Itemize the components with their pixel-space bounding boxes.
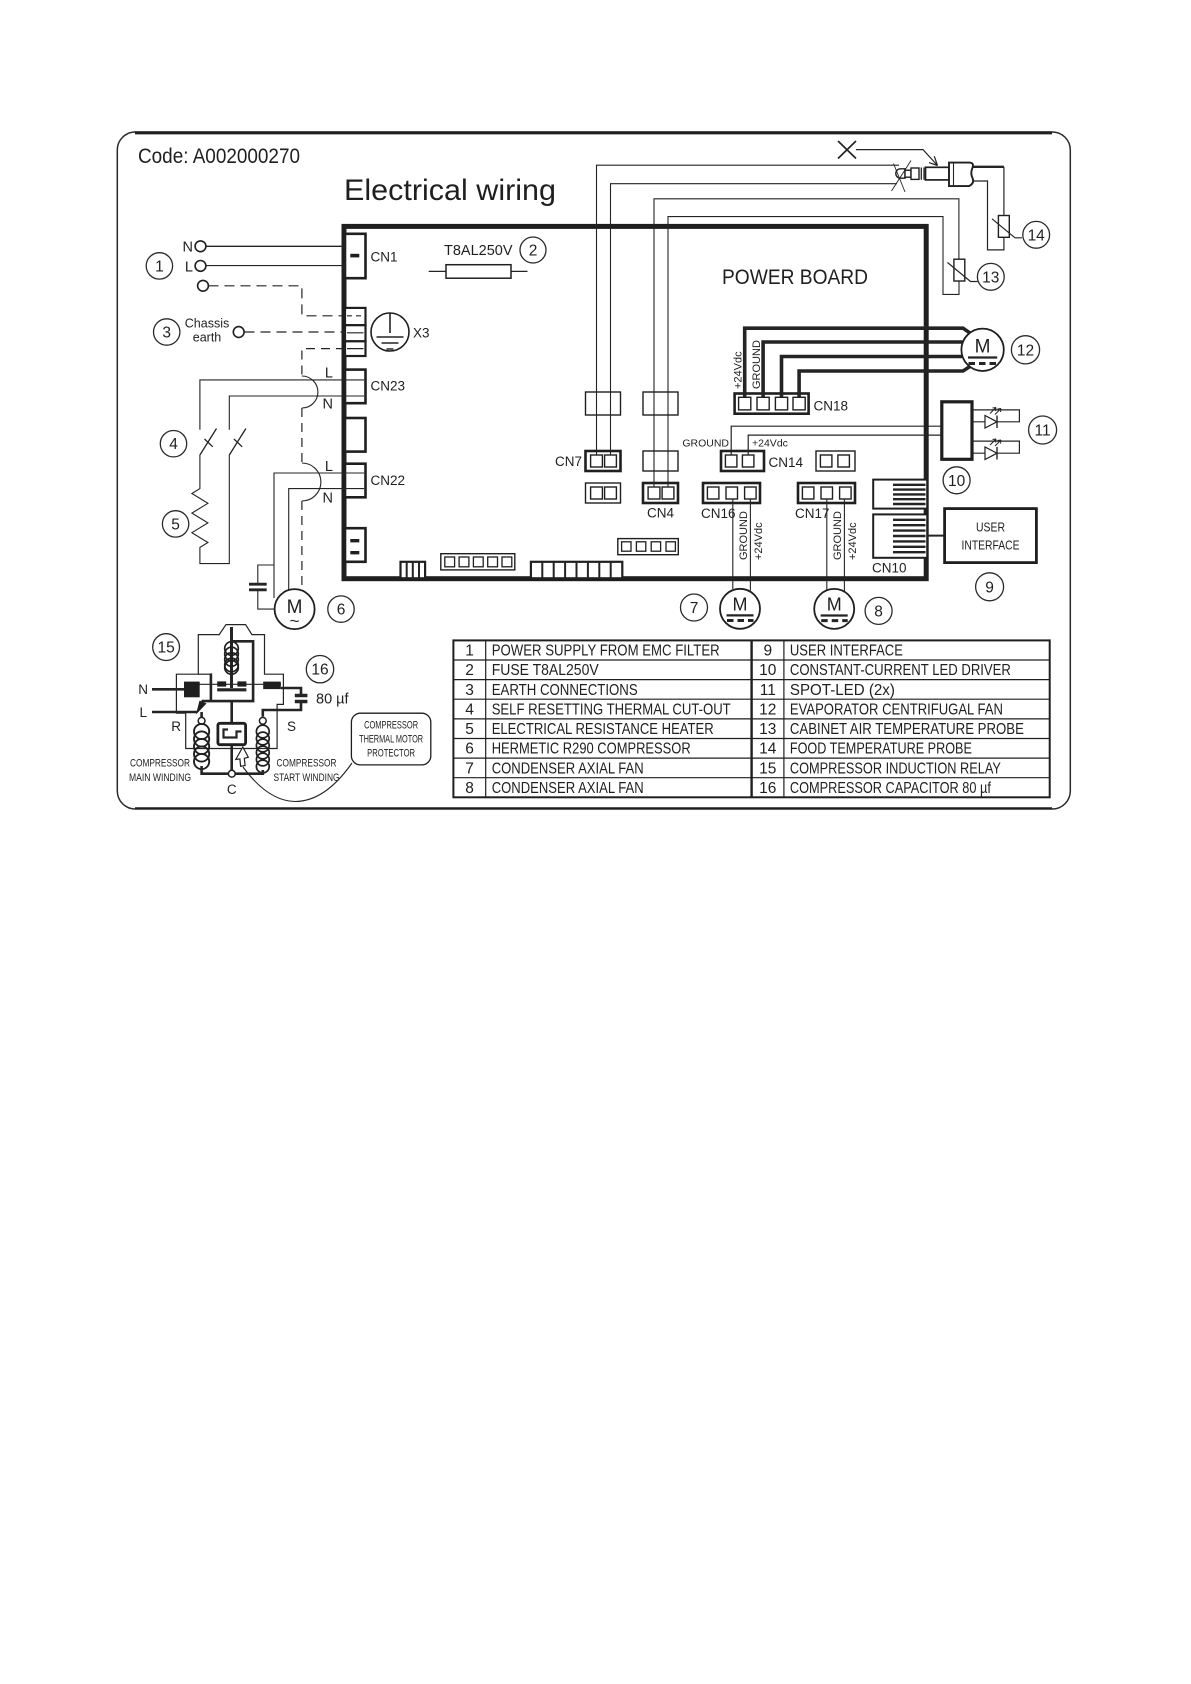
connector rect above CN4 upper: [643, 392, 678, 415]
svg-text:GROUND: GROUND: [832, 511, 844, 560]
svg-text:CN14: CN14: [769, 455, 804, 470]
svg-text:15: 15: [157, 640, 174, 657]
legend row 2: [465, 662, 599, 679]
diode spot-led 1: [985, 408, 1001, 429]
svg-text:X3: X3: [413, 326, 430, 341]
svg-text:1: 1: [465, 643, 474, 660]
svg-text:FUSE T8AL250V: FUSE T8AL250V: [492, 662, 600, 679]
legend row 13: [759, 721, 1024, 738]
node R terminal: [171, 712, 205, 734]
svg-text:POWER BOARD: POWER BOARD: [722, 265, 868, 289]
svg-text:EARTH CONNECTIONS: EARTH CONNECTIONS: [492, 682, 638, 699]
svg-text:+24Vdc: +24Vdc: [752, 438, 788, 450]
wire plug tip to food probe: [973, 167, 1004, 216]
svg-text:COMPRESSOR: COMPRESSOR: [277, 758, 337, 770]
node N terminal: [183, 240, 206, 256]
wire winding bottoms to C: [202, 766, 263, 774]
wire led driver to spot-led 2: [972, 441, 1019, 453]
switch thermal cutout b: [229, 429, 246, 456]
connector 4-pin mid board: [618, 539, 679, 555]
svg-text:4: 4: [169, 436, 178, 453]
wire dashed earth to compressor: [302, 349, 345, 591]
relay contacts: [184, 681, 281, 697]
wire dashed chassis earth to X3: [245, 331, 346, 333]
node C terminal: [227, 770, 237, 797]
connector 2-pin right of CN14: [816, 451, 855, 471]
legend row 4: [465, 701, 731, 718]
wire CN16 ground to condenser fan 7: [732, 499, 734, 589]
node S terminal: [259, 717, 296, 734]
motor M condenser fan 8: [814, 589, 854, 629]
label circled 1: [146, 253, 172, 279]
svg-text:CABINET AIR TEMPERATURE PROBE: CABINET AIR TEMPERATURE PROBE: [790, 721, 1024, 738]
wire plug sleeve return from food probe: [973, 181, 1004, 250]
svg-text:13: 13: [982, 269, 999, 286]
wire dashed earth input to X3: [209, 286, 346, 316]
capacitor compressor run: [249, 565, 275, 609]
connector X3 earth block: [345, 308, 366, 356]
svg-text:M: M: [733, 595, 748, 615]
callout X mark: [838, 141, 938, 166]
svg-text:GROUND: GROUND: [738, 511, 750, 560]
legend row 3: [465, 682, 638, 699]
svg-text:8: 8: [874, 603, 883, 620]
svg-text:ELECTRICAL RESISTANCE HEATER: ELECTRICAL RESISTANCE HEATER: [492, 721, 714, 738]
svg-text:CONDENSER AXIAL FAN: CONDENSER AXIAL FAN: [492, 780, 644, 797]
wire relay to run capacitor 80uf: [281, 688, 301, 694]
svg-text:N: N: [138, 682, 148, 697]
legend row 1: [465, 643, 720, 660]
connector CN7: [555, 451, 621, 471]
wire L into relay: [139, 701, 206, 721]
legend row 8: [465, 780, 644, 797]
svg-text:POWER SUPPLY FROM EMC FILTER: POWER SUPPLY FROM EMC FILTER: [492, 643, 720, 660]
led driver U2: [942, 402, 972, 460]
svg-text:C: C: [227, 782, 237, 797]
legend table: [453, 640, 1049, 797]
wire led driver to spot-led 1: [972, 410, 1019, 422]
svg-text:80 µf: 80 µf: [316, 692, 350, 708]
label circled 4: [160, 431, 186, 457]
connector rect above CN4 lower: [643, 451, 678, 471]
legend row 10: [759, 662, 1011, 679]
wire CN4 pin2 return from cabinet probe: [668, 217, 959, 487]
wire N into relay: [138, 682, 184, 697]
motor M compressor: [275, 589, 315, 630]
legend row 14: [759, 741, 972, 758]
svg-text:FOOD TEMPERATURE PROBE: FOOD TEMPERATURE PROBE: [790, 741, 972, 758]
node chassis earth terminal: [185, 317, 244, 345]
svg-text:9: 9: [763, 643, 772, 660]
wire CN16 +24Vdc to condenser fan 7: [749, 499, 751, 591]
label circled 14: [1023, 221, 1050, 248]
svg-text:CN1: CN1: [371, 250, 398, 265]
comb connector board bottom b: [531, 562, 622, 579]
legend row 15: [759, 760, 1001, 777]
legend row 12: [759, 701, 1003, 718]
wire CN23 L: [200, 380, 364, 430]
connector CN4: [643, 483, 678, 521]
svg-text:10: 10: [759, 662, 777, 679]
node earth input terminal: [198, 280, 209, 291]
svg-text:SPOT-LED (2x): SPOT-LED (2x): [790, 682, 895, 699]
svg-text:CONSTANT-CURRENT LED DRIVER: CONSTANT-CURRENT LED DRIVER: [790, 662, 1011, 679]
connector CN10 upper comb: [873, 480, 927, 509]
wire CN18 pin3 to evaporator fan: [782, 357, 963, 398]
svg-text:6: 6: [337, 602, 346, 619]
svg-text:START WINDING: START WINDING: [274, 772, 340, 784]
legend row 11: [760, 682, 895, 699]
label circled 13: [977, 263, 1004, 290]
fuse F1 T8AL250V: [429, 243, 528, 278]
legend row 5: [465, 721, 714, 738]
svg-text:Chassis: Chassis: [185, 317, 229, 331]
svg-text:earth: earth: [193, 331, 222, 345]
protector callout bubble: [351, 713, 430, 765]
svg-text:N: N: [183, 240, 193, 256]
svg-text:GROUND: GROUND: [682, 438, 729, 450]
ground symbol X3: [371, 313, 430, 351]
switch thermal cutout a: [200, 429, 217, 456]
svg-text:M: M: [827, 595, 842, 615]
code label: [138, 144, 300, 168]
svg-text:USER INTERFACE: USER INTERFACE: [790, 643, 903, 660]
jack plug food probe: [892, 161, 974, 193]
wire L to CN1: [206, 265, 345, 267]
power board U1: [344, 226, 926, 578]
svg-text:SELF RESETTING THERMAL CUT-OUT: SELF RESETTING THERMAL CUT-OUT: [492, 701, 731, 718]
svg-text:15: 15: [759, 760, 776, 777]
svg-text:14: 14: [759, 741, 777, 758]
thermistor cabinet air probe: [948, 259, 978, 281]
svg-text:COMPRESSOR INDUCTION RELAY: COMPRESSOR INDUCTION RELAY: [790, 760, 1001, 777]
title: [344, 174, 556, 207]
node L terminal: [185, 260, 206, 276]
svg-text:7: 7: [465, 760, 474, 777]
svg-text:M: M: [975, 337, 991, 358]
svg-text:9: 9: [985, 579, 994, 596]
motor M condenser fan 7: [720, 589, 760, 629]
label circled 12: [1011, 336, 1039, 364]
wire CN22 L: [274, 473, 364, 598]
legend row 6: [465, 741, 691, 758]
svg-text:CN22: CN22: [371, 473, 406, 488]
resistor heater R1: [192, 455, 229, 564]
svg-text:2: 2: [465, 662, 474, 679]
connector CN16: [701, 483, 765, 560]
label circled 10: [943, 467, 970, 494]
border frame: [117, 132, 1070, 809]
svg-text:5: 5: [171, 516, 180, 533]
legend row 7: [465, 760, 644, 777]
label circled 6: [328, 596, 354, 622]
legend row 9: [763, 643, 902, 660]
svg-text:+24Vdc: +24Vdc: [753, 522, 765, 560]
svg-text:S: S: [287, 719, 296, 734]
svg-text:3: 3: [162, 325, 171, 342]
label circled 7: [681, 594, 708, 621]
svg-text:R: R: [171, 719, 181, 734]
svg-text:CN7: CN7: [555, 454, 582, 469]
label circled 2: [520, 237, 546, 263]
wire CN18 pin2 to evaporator fan: [763, 342, 962, 397]
wire CN7 pin2 to food probe plug: [611, 184, 898, 455]
svg-text:12: 12: [1017, 342, 1034, 359]
svg-text:GROUND: GROUND: [751, 340, 763, 389]
svg-text:CONDENSER AXIAL FAN: CONDENSER AXIAL FAN: [492, 760, 644, 777]
wire CN23 N: [229, 396, 364, 430]
svg-text:16: 16: [759, 780, 776, 797]
svg-text:11: 11: [760, 682, 776, 699]
compressor relay casing: [176, 625, 283, 749]
label circled 3: [154, 319, 180, 345]
connector CN18: [733, 340, 849, 414]
connector 2-pin below CN7: [586, 483, 621, 503]
svg-text:10: 10: [948, 473, 966, 490]
connector CN23: [323, 366, 406, 413]
svg-text:6: 6: [465, 741, 474, 758]
svg-text:INTERFACE: INTERFACE: [962, 539, 1020, 553]
svg-text:L: L: [185, 260, 193, 276]
svg-text:HERMETIC R290 COMPRESSOR: HERMETIC R290 COMPRESSOR: [492, 741, 691, 758]
thermistor food probe: [992, 216, 1022, 238]
relay coil: [225, 627, 239, 688]
connector CN14: [682, 438, 803, 472]
svg-text:USER: USER: [976, 521, 1005, 535]
svg-text:16: 16: [311, 662, 328, 679]
wire CN14 +24Vdc to led driver: [748, 435, 942, 455]
svg-text:N: N: [323, 491, 333, 507]
diode spot-led 2: [985, 439, 1001, 460]
connector rect above CN7: [586, 392, 621, 415]
legend row 16: [759, 780, 991, 797]
wire CN22 N: [289, 489, 364, 591]
svg-text:COMPRESSOR CAPACITOR 80 µf: COMPRESSOR CAPACITOR 80 µf: [790, 780, 992, 797]
svg-text:14: 14: [1028, 227, 1046, 244]
svg-text:Code: A002000270: Code: A002000270: [138, 144, 300, 168]
svg-text:CN23: CN23: [371, 379, 406, 394]
svg-text:T8AL250V: T8AL250V: [444, 243, 513, 259]
compressor main winding coil: [194, 724, 209, 769]
pointer arrow to protector: [236, 747, 352, 802]
wire CN10 to user interface: [927, 535, 944, 537]
connector spare below CN23: [345, 418, 366, 452]
label circled 8: [865, 597, 892, 624]
relay frame: [202, 641, 254, 701]
svg-text:~: ~: [290, 612, 300, 631]
svg-text:THERMAL MOTOR: THERMAL MOTOR: [359, 734, 423, 746]
connector CN10 lower comb: [872, 514, 927, 575]
user interface box: [945, 509, 1037, 563]
svg-text:CN16: CN16: [701, 506, 736, 521]
label circled 15: [153, 634, 180, 661]
svg-text:13: 13: [759, 721, 776, 738]
svg-text:3: 3: [465, 682, 474, 699]
svg-text:+24Vdc: +24Vdc: [733, 351, 745, 389]
compressor start winding coil: [256, 725, 269, 773]
label circled 5: [162, 511, 188, 537]
label circled 16: [306, 656, 333, 683]
svg-text:1: 1: [155, 258, 164, 275]
wire CN18 pin4 to evaporator fan: [799, 364, 974, 398]
wire CN17 +24Vdc to condenser fan 8: [843, 499, 845, 592]
connector CN17: [795, 483, 859, 560]
wire CN4 pin1 to cabinet probe: [654, 199, 959, 487]
svg-text:2: 2: [529, 243, 538, 260]
connector bottom-left on board edge: [345, 528, 366, 562]
wire CN17 ground to condenser fan 8: [826, 499, 828, 590]
svg-text:MAIN WINDING: MAIN WINDING: [129, 772, 191, 784]
wire CN7 pin1 to food probe plug: [597, 165, 900, 455]
svg-text:L: L: [325, 366, 333, 382]
svg-text:11: 11: [1035, 423, 1051, 440]
label circled 9: [976, 573, 1004, 601]
svg-text:12: 12: [759, 701, 776, 718]
svg-text:7: 7: [690, 600, 699, 617]
svg-text:4: 4: [465, 701, 474, 718]
connector CN22: [323, 459, 406, 507]
wire CN14 ground to led driver: [731, 426, 942, 455]
svg-text:COMPRESSOR: COMPRESSOR: [364, 720, 418, 732]
connector CN1: [345, 234, 398, 278]
connector 5-pin board bottom: [441, 554, 515, 570]
svg-text:5: 5: [465, 721, 474, 738]
svg-text:8: 8: [465, 780, 474, 797]
label compressor main winding: [129, 758, 191, 785]
label compressor start winding: [274, 758, 340, 785]
thermal protector box: [218, 701, 246, 770]
motor M evaporator fan: [961, 329, 1003, 371]
svg-text:PROTECTOR: PROTECTOR: [367, 748, 415, 760]
svg-text:L: L: [139, 705, 147, 720]
svg-text:EVAPORATOR CENTRIFUGAL FAN: EVAPORATOR CENTRIFUGAL FAN: [790, 701, 1003, 718]
label circled 11: [1029, 416, 1057, 444]
capacitor 80uf: [263, 692, 350, 717]
svg-text:CN17: CN17: [795, 506, 830, 521]
svg-text:COMPRESSOR: COMPRESSOR: [130, 758, 190, 770]
wire N to CN1: [206, 245, 345, 247]
svg-text:CN4: CN4: [647, 506, 674, 521]
svg-text:N: N: [323, 397, 333, 413]
svg-text:CN18: CN18: [814, 399, 849, 414]
svg-text:CN10: CN10: [872, 561, 907, 576]
svg-text:+24Vdc: +24Vdc: [847, 522, 859, 560]
comb connector board bottom a: [401, 562, 426, 579]
wire CN18 pin1 to evaporator fan: [745, 328, 976, 397]
svg-text:Electrical wiring: Electrical wiring: [344, 174, 556, 207]
